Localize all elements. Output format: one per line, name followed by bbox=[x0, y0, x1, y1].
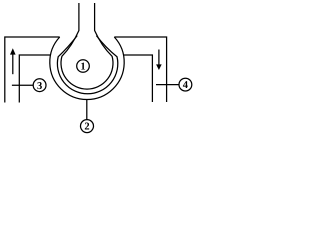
label circle 3 bbox=[33, 79, 46, 92]
flask ① inner wall with neck bbox=[61, 3, 113, 89]
down arrow head bbox=[156, 64, 162, 70]
outer jacket wall ② bbox=[50, 37, 124, 99]
svg-text:4: 4 bbox=[183, 80, 189, 91]
leader line to label 4 bbox=[156, 84, 179, 86]
left pipe outer wall bbox=[5, 37, 60, 103]
up arrow (left pipe flow) shaft bbox=[12, 54, 14, 75]
label circle 2 bbox=[81, 120, 94, 133]
left pipe inner wall bbox=[19, 55, 51, 103]
label circle 1 bbox=[77, 60, 90, 73]
right pipe inner wall bbox=[123, 55, 152, 102]
svg-text:3: 3 bbox=[37, 81, 42, 92]
svg-text:1: 1 bbox=[80, 62, 85, 73]
flask ① outer wall (double-wall line) bbox=[57, 36, 117, 94]
down arrow (right pipe flow) shaft bbox=[158, 50, 160, 66]
leader line to label 2 bbox=[86, 100, 88, 120]
leader line to label 3 bbox=[12, 84, 33, 86]
label circle 4 bbox=[179, 78, 192, 91]
svg-text:2: 2 bbox=[84, 122, 89, 133]
up arrow head bbox=[10, 48, 16, 54]
right pipe outer wall bbox=[114, 37, 166, 102]
